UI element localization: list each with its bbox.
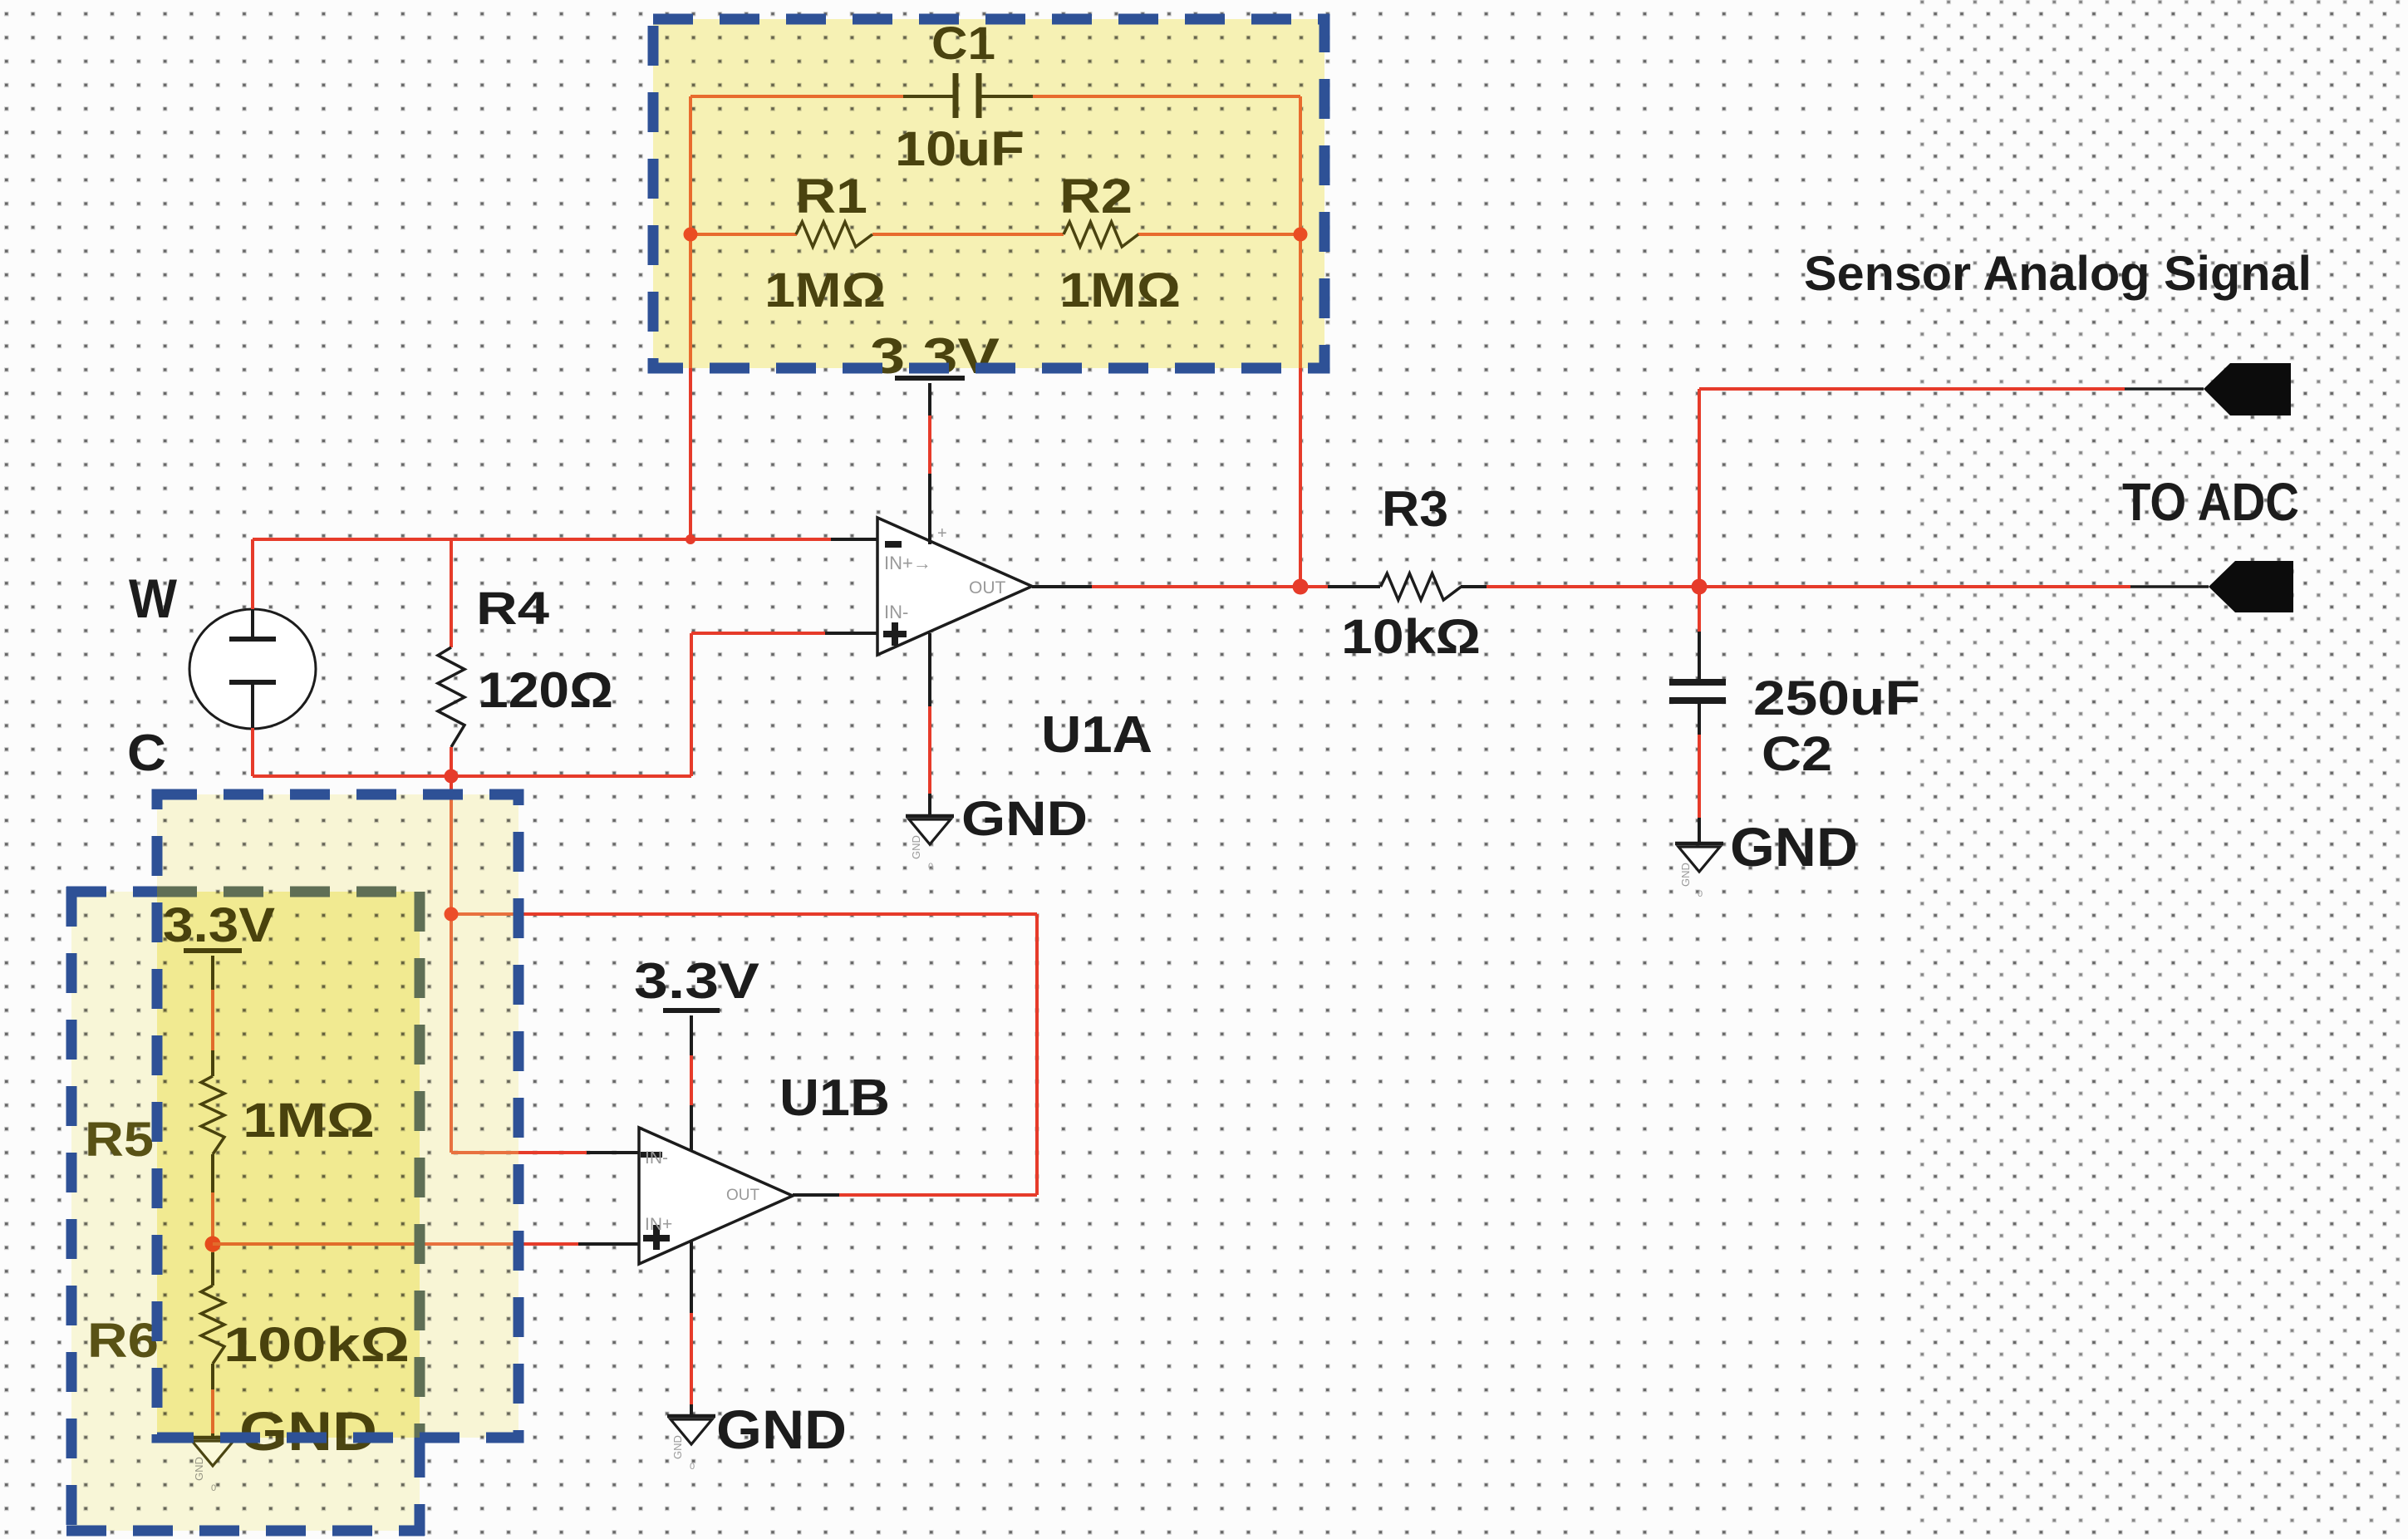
svg-text:0: 0 bbox=[1698, 889, 1703, 899]
svg-text:OUT: OUT bbox=[969, 578, 1006, 597]
svg-text:GND: GND bbox=[671, 1435, 684, 1459]
svg-text:120Ω: 120Ω bbox=[478, 662, 613, 718]
svg-text:GND: GND bbox=[961, 792, 1088, 846]
svg-text:R3: R3 bbox=[1382, 481, 1448, 537]
svg-text:OUT: OUT bbox=[726, 1187, 760, 1204]
svg-text:250uF: 250uF bbox=[1753, 671, 1920, 725]
svg-text:3.3V: 3.3V bbox=[634, 953, 759, 1009]
svg-text:0: 0 bbox=[928, 862, 933, 872]
svg-text:GND: GND bbox=[716, 1399, 847, 1460]
svg-text:IN+→: IN+→ bbox=[884, 553, 931, 573]
svg-text:GND: GND bbox=[1730, 816, 1858, 878]
svg-text:IN+: IN+ bbox=[645, 1215, 672, 1234]
svg-text:R4: R4 bbox=[476, 582, 549, 634]
svg-text:C: C bbox=[127, 725, 166, 782]
svg-text:U1B: U1B bbox=[779, 1069, 890, 1127]
svg-text:GND: GND bbox=[910, 835, 922, 859]
svg-text:U1A: U1A bbox=[1041, 706, 1152, 764]
svg-text:+: + bbox=[937, 524, 947, 543]
svg-text:C2: C2 bbox=[1762, 727, 1832, 781]
svg-text:TO ADC: TO ADC bbox=[2122, 472, 2299, 532]
svg-text:GND: GND bbox=[1679, 863, 1692, 887]
svg-text:IN-: IN- bbox=[645, 1148, 668, 1168]
svg-text:W: W bbox=[129, 568, 178, 629]
svg-text:IN-: IN- bbox=[884, 602, 908, 622]
svg-text:0: 0 bbox=[690, 1462, 695, 1472]
svg-text:Sensor Analog Signal: Sensor Analog Signal bbox=[1804, 247, 2312, 301]
svg-text:10kΩ: 10kΩ bbox=[1341, 610, 1481, 664]
